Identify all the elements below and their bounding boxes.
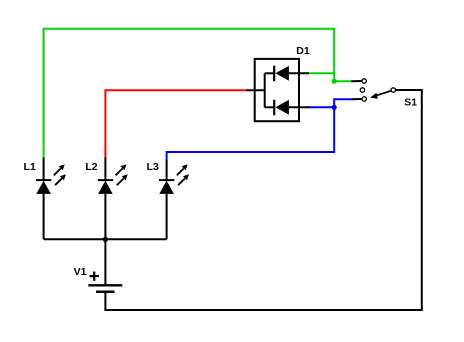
wire battery negative lead (104, 292, 106, 310)
LED L3 triangle (159, 181, 174, 194)
wire black stub green throw to switch contact (352, 80, 362, 82)
LED L1 triangle (36, 181, 51, 194)
LED L3 emission arrow lower (178, 178, 185, 185)
S1 throw contact middle (360, 88, 364, 92)
D1 bottom diode (265, 106, 275, 108)
battery V1 plus sign (90, 275, 99, 277)
svg-text:D1: D1 (296, 45, 310, 57)
S1 lever with arrowhead (377, 91, 391, 96)
wire L3 bottom lead (166, 194, 168, 239)
LED L2 (85, 158, 127, 240)
svg-text:L3: L3 (147, 161, 159, 173)
LED L3 cathode bar (159, 179, 174, 181)
svg-text:L1: L1 (24, 161, 36, 173)
wire green branch from D1 top diode (308, 72, 334, 74)
junction dot blue (332, 105, 337, 110)
wire blue net: from switch bottom throw down and across to L3 anode (167, 99, 353, 161)
wire battery positive lead (104, 239, 106, 285)
wire L3 top lead (166, 160, 168, 180)
D1 top diode (265, 72, 275, 74)
wire black stub blue throw to switch contact (352, 98, 362, 100)
svg-text:L2: L2 (85, 161, 97, 173)
LED L1 emission arrow lower (55, 178, 62, 185)
S1 throw contact blue (362, 97, 366, 101)
LED L1 (24, 158, 66, 240)
wire black stub red wire into D1 box to internal bus (247, 89, 265, 91)
LED L1 cathode bar (36, 179, 51, 181)
LED L3 (147, 160, 189, 239)
battery V1 positive plate (88, 284, 122, 286)
wire L1 top lead (43, 158, 45, 181)
wire red net: L2 anode up and across to D1 input (105, 90, 247, 158)
LED L2 cathode bar (98, 179, 113, 181)
wire L2 top lead (104, 158, 106, 181)
wire blue branch from D1 bottom diode (308, 106, 334, 108)
LED L1 emission arrow upper (54, 169, 61, 176)
wire pole to right rail (396, 89, 422, 91)
LED L2 emission arrow upper (116, 169, 123, 176)
D1 internal bus (264, 73, 266, 107)
junction dot green at corner (332, 79, 337, 84)
wire bottom return (105, 90, 421, 310)
wire L1 bottom lead (43, 194, 45, 239)
wire cathode bus (44, 238, 167, 240)
wire L2 bottom lead (104, 194, 106, 239)
battery V1 (74, 266, 123, 292)
S1 pole contact (391, 88, 395, 92)
junction dot bus to battery (103, 237, 108, 242)
LED L2 emission arrow lower (117, 178, 124, 185)
D1 box (255, 59, 299, 121)
switch S1 (360, 79, 422, 109)
LED L2 triangle (98, 181, 113, 194)
LED L3 emission arrow upper (177, 169, 184, 176)
battery V1 negative plate (96, 290, 114, 293)
svg-text:V1: V1 (74, 266, 87, 278)
S1 throw contact green (362, 79, 366, 83)
diode pair D1 (255, 45, 310, 121)
wire green net: L1 anode up, across top, down to switch top throw (44, 29, 353, 159)
svg-text:S1: S1 (404, 97, 417, 109)
